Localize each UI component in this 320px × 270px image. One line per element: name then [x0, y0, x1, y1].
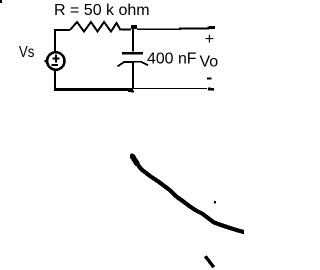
- corner speck: [0, 0, 2, 3]
- freehand curve stroke: [132, 156, 245, 233]
- node top junction tick: [131, 25, 137, 29]
- terminal top blob: [208, 26, 216, 30]
- wire capacitor bottom lead: [132, 63, 134, 90]
- wire left vertical top: [54, 30, 56, 52]
- terminal bottom blob: [208, 88, 214, 91]
- voltage source V1 circle: [47, 52, 64, 69]
- bottom right tick: [205, 256, 214, 267]
- wire junction to top terminal: [137, 28, 208, 31]
- label - output minus dash: [207, 78, 212, 80]
- svg-text:400 nF: 400 nF: [147, 51, 197, 68]
- wire left vertical bottom: [54, 71, 56, 91]
- svg-text:+: +: [205, 31, 214, 48]
- wire bottom rail left: [54, 88, 133, 91]
- voltage source minus sign: [51, 64, 57, 66]
- wire resistor to junction: [121, 29, 132, 31]
- svg-text:R = 50 k ohm: R = 50 k ohm: [54, 2, 150, 19]
- resistor R1 zigzag: [70, 22, 121, 32]
- svg-text:Vo: Vo: [200, 54, 219, 71]
- node bottom junction tick: [128, 90, 134, 93]
- voltage source left blob: [44, 60, 47, 63]
- wire bottom rail right: [133, 88, 207, 90]
- capacitor C1 bottom plate curved: [118, 62, 149, 67]
- svg-text:Vs: Vs: [19, 44, 35, 61]
- wire top stub left of resistor: [54, 29, 70, 31]
- freehand curve start blob: [133, 157, 138, 164]
- capacitor C1 top plate: [122, 52, 143, 55]
- wire capacitor top lead: [132, 29, 134, 52]
- voltage source plus sign: [52, 55, 59, 63]
- stray dot: [214, 201, 216, 204]
